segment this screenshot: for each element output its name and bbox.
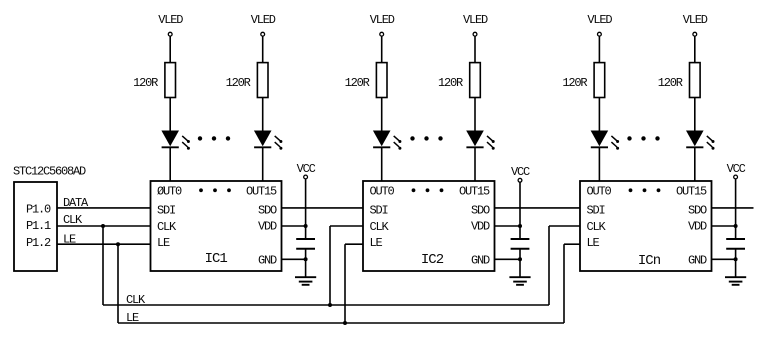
LED D2 (column 2) bbox=[254, 131, 283, 150]
wire VDD of ICn to VCC rail bbox=[712, 225, 736, 227]
ellipsis dots inside IC1 bbox=[199, 188, 231, 192]
junction VDD-VCC of IC2 bbox=[518, 224, 522, 228]
capacitor decoupling at ICn bbox=[726, 239, 745, 249]
wire LE riser to ICn LE bbox=[563, 244, 565, 323]
wire SDO of ICn to next stage bbox=[712, 207, 754, 209]
ground symbol at IC1 bbox=[295, 277, 316, 285]
wire VDD of IC1 to VCC rail bbox=[282, 225, 306, 227]
wire VLED to resistor (column 5) bbox=[598, 36, 600, 63]
svg-text:120R: 120R bbox=[658, 76, 683, 90]
svg-text:VCC: VCC bbox=[297, 162, 316, 176]
svg-text:LE: LE bbox=[126, 311, 139, 325]
svg-text:VLED: VLED bbox=[251, 13, 276, 27]
capacitor decoupling at IC2 bbox=[511, 239, 530, 249]
wire LED to OUT pin (column 5) bbox=[598, 147, 600, 181]
svg-text:OUT0: OUT0 bbox=[587, 184, 612, 198]
LED driver IC1 bbox=[151, 181, 282, 271]
wire capacitor bottom to ground symbol of ICn bbox=[735, 249, 737, 278]
net VLED terminal (column 2) bbox=[251, 13, 276, 36]
junction GND of IC2 bbox=[518, 257, 522, 261]
junction on LE wire bbox=[116, 242, 120, 246]
net VLED terminal (column 6) bbox=[683, 13, 708, 36]
svg-text:ICn: ICn bbox=[638, 253, 661, 269]
svg-text:GND: GND bbox=[258, 253, 277, 267]
net VLED terminal (column 4) bbox=[463, 13, 488, 36]
svg-text:GND: GND bbox=[688, 253, 707, 267]
wire resistor to LED (column 5) bbox=[598, 98, 600, 131]
svg-text:SDI: SDI bbox=[157, 203, 175, 217]
svg-text:SDO: SDO bbox=[471, 203, 490, 217]
LED driver ICn bbox=[580, 181, 712, 271]
wire IC2 LE pin stub bbox=[345, 243, 363, 245]
wire CLK vertical drop to CLK bus bbox=[102, 226, 104, 305]
svg-text:120R: 120R bbox=[438, 76, 463, 90]
svg-text:P1.2: P1.2 bbox=[26, 236, 51, 250]
wire DATA: MCU P1.0 to IC1 SDI bbox=[57, 196, 151, 210]
svg-text:OUT15: OUT15 bbox=[459, 184, 490, 198]
wire LE: MCU P1.2 to IC1 LE bbox=[57, 232, 151, 246]
svg-text:CLK: CLK bbox=[370, 220, 390, 234]
ellipsis dots between LEDs of IC1 bbox=[198, 136, 230, 140]
net VLED terminal (column 5) bbox=[587, 13, 612, 36]
LED D3 (column 3) bbox=[373, 131, 402, 150]
junction GND of IC1 bbox=[304, 257, 308, 261]
svg-text:LE: LE bbox=[370, 236, 383, 250]
svg-text:VDD: VDD bbox=[471, 220, 490, 234]
svg-text:CLK: CLK bbox=[63, 213, 83, 227]
svg-text:P1.0: P1.0 bbox=[26, 202, 51, 216]
wire VCC vertical rail of IC1 bbox=[305, 179, 307, 239]
ellipsis dots inside IC2 bbox=[412, 188, 444, 192]
wire VLED to resistor (column 2) bbox=[262, 36, 264, 63]
svg-text:CLK: CLK bbox=[157, 220, 177, 234]
svg-text:IC2: IC2 bbox=[421, 252, 444, 268]
wire LE bus (bottom) bbox=[118, 311, 564, 325]
junction VDD-VCC of IC1 bbox=[304, 224, 308, 228]
svg-text:LE: LE bbox=[157, 236, 170, 250]
svg-text:VCC: VCC bbox=[511, 165, 530, 179]
svg-text:ØUT0: ØUT0 bbox=[157, 184, 182, 198]
svg-text:VDD: VDD bbox=[688, 220, 707, 234]
wire SDO of IC2 to next stage bbox=[495, 207, 581, 209]
svg-text:P1.1: P1.1 bbox=[26, 219, 51, 233]
svg-text:OUT0: OUT0 bbox=[370, 184, 395, 198]
junction on CLK wire bbox=[101, 224, 105, 228]
svg-text:LE: LE bbox=[63, 232, 76, 246]
wire resistor to LED (column 3) bbox=[381, 98, 383, 131]
wire capacitor bottom to ground symbol of IC2 bbox=[519, 249, 521, 278]
svg-text:CLK: CLK bbox=[126, 293, 146, 307]
wire LED to OUT pin (column 1) bbox=[169, 147, 171, 181]
junction GND of ICn bbox=[734, 257, 738, 261]
LED D5 (column 5) bbox=[591, 131, 620, 150]
LED D6 (column 6) bbox=[686, 131, 715, 150]
wire capacitor bottom to ground symbol of IC1 bbox=[305, 249, 307, 278]
microcontroller U1 STC12C5608AD bbox=[13, 165, 86, 271]
wire LE riser to IC2 LE bbox=[344, 244, 346, 323]
resistor 120R (column 4) bbox=[438, 63, 480, 98]
svg-text:SDO: SDO bbox=[688, 203, 707, 217]
wire ICn LE pin stub bbox=[564, 243, 580, 245]
LED D1 (column 1) bbox=[161, 131, 190, 150]
junction CLK bus to IC2 bbox=[328, 303, 332, 307]
svg-text:120R: 120R bbox=[133, 76, 158, 90]
svg-text:SDI: SDI bbox=[370, 203, 388, 217]
svg-text:VLED: VLED bbox=[587, 13, 612, 27]
wire VLED to resistor (column 1) bbox=[169, 36, 171, 63]
capacitor decoupling at IC1 bbox=[296, 239, 315, 249]
junction VDD-VCC of ICn bbox=[734, 224, 738, 228]
svg-text:DATA: DATA bbox=[63, 196, 89, 210]
wire VCC vertical rail of IC2 bbox=[519, 182, 521, 239]
wire VLED to resistor (column 4) bbox=[474, 36, 476, 63]
svg-text:VLED: VLED bbox=[158, 13, 183, 27]
svg-text:OUT15: OUT15 bbox=[246, 184, 277, 198]
wire VLED to resistor (column 6) bbox=[694, 36, 696, 63]
net VCC terminal at IC2 bbox=[511, 165, 530, 182]
wire ICn CLK pin stub bbox=[549, 225, 580, 227]
svg-text:SDO: SDO bbox=[258, 203, 277, 217]
svg-text:SDI: SDI bbox=[587, 203, 605, 217]
svg-text:CLK: CLK bbox=[587, 220, 607, 234]
resistor 120R (column 6) bbox=[658, 63, 700, 98]
wire LED to OUT pin (column 2) bbox=[262, 147, 264, 181]
resistor 120R (column 1) bbox=[133, 63, 175, 98]
ellipsis dots between LEDs of ICn bbox=[627, 136, 659, 140]
wire VLED to resistor (column 3) bbox=[381, 36, 383, 63]
svg-text:IC1: IC1 bbox=[205, 251, 228, 267]
svg-text:OUT15: OUT15 bbox=[676, 184, 707, 198]
wire CLK riser to IC2 CLK bbox=[329, 226, 331, 305]
wire resistor to LED (column 2) bbox=[262, 98, 264, 131]
wire resistor to LED (column 6) bbox=[694, 98, 696, 131]
junction LE bus to IC2 bbox=[343, 321, 347, 325]
wire GND pin of ICn to ground rail bbox=[712, 258, 736, 260]
ground symbol at IC2 bbox=[509, 277, 530, 285]
wire CLK: MCU P1.1 to IC1 CLK bbox=[57, 213, 151, 227]
net VLED terminal (column 1) bbox=[158, 13, 183, 36]
resistor 120R (column 3) bbox=[345, 63, 387, 98]
net VCC terminal at IC1 bbox=[297, 162, 316, 179]
wire SDO of IC1 to next stage bbox=[282, 207, 364, 209]
wire CLK bus (bottom) bbox=[103, 293, 549, 307]
resistor 120R (column 5) bbox=[562, 63, 604, 98]
ground symbol at ICn bbox=[725, 277, 746, 285]
wire resistor to LED (column 1) bbox=[169, 98, 171, 131]
resistor 120R (column 2) bbox=[226, 63, 268, 98]
wire VDD of IC2 to VCC rail bbox=[495, 225, 521, 227]
wire VCC vertical rail of ICn bbox=[735, 179, 737, 239]
wire LE vertical drop to LE bus bbox=[117, 244, 119, 323]
svg-text:120R: 120R bbox=[226, 76, 251, 90]
svg-text:GND: GND bbox=[471, 253, 490, 267]
net VLED terminal (column 3) bbox=[370, 13, 395, 36]
svg-text:VDD: VDD bbox=[258, 220, 277, 234]
LED D4 (column 4) bbox=[466, 131, 495, 150]
wire GND pin of IC2 to ground rail bbox=[495, 258, 521, 260]
svg-text:STC12C5608AD: STC12C5608AD bbox=[13, 165, 86, 179]
wire GND pin of IC1 to ground rail bbox=[282, 258, 306, 260]
svg-text:VLED: VLED bbox=[683, 13, 708, 27]
ellipsis dots inside ICn bbox=[629, 188, 661, 192]
LED driver IC2 bbox=[363, 181, 495, 271]
svg-text:LE: LE bbox=[587, 236, 600, 250]
net VCC terminal at ICn bbox=[727, 162, 746, 179]
svg-text:VCC: VCC bbox=[727, 162, 746, 176]
svg-text:120R: 120R bbox=[562, 76, 587, 90]
svg-text:VLED: VLED bbox=[370, 13, 395, 27]
wire LED to OUT pin (column 4) bbox=[474, 147, 476, 181]
svg-text:120R: 120R bbox=[345, 76, 370, 90]
svg-text:VLED: VLED bbox=[463, 13, 488, 27]
wire IC2 CLK pin stub bbox=[330, 225, 363, 227]
wire LED to OUT pin (column 3) bbox=[381, 147, 383, 181]
wire resistor to LED (column 4) bbox=[474, 98, 476, 131]
wire LED to OUT pin (column 6) bbox=[694, 147, 696, 181]
ellipsis dots between LEDs of IC2 bbox=[410, 136, 442, 140]
wire CLK riser to ICn CLK bbox=[548, 226, 550, 305]
